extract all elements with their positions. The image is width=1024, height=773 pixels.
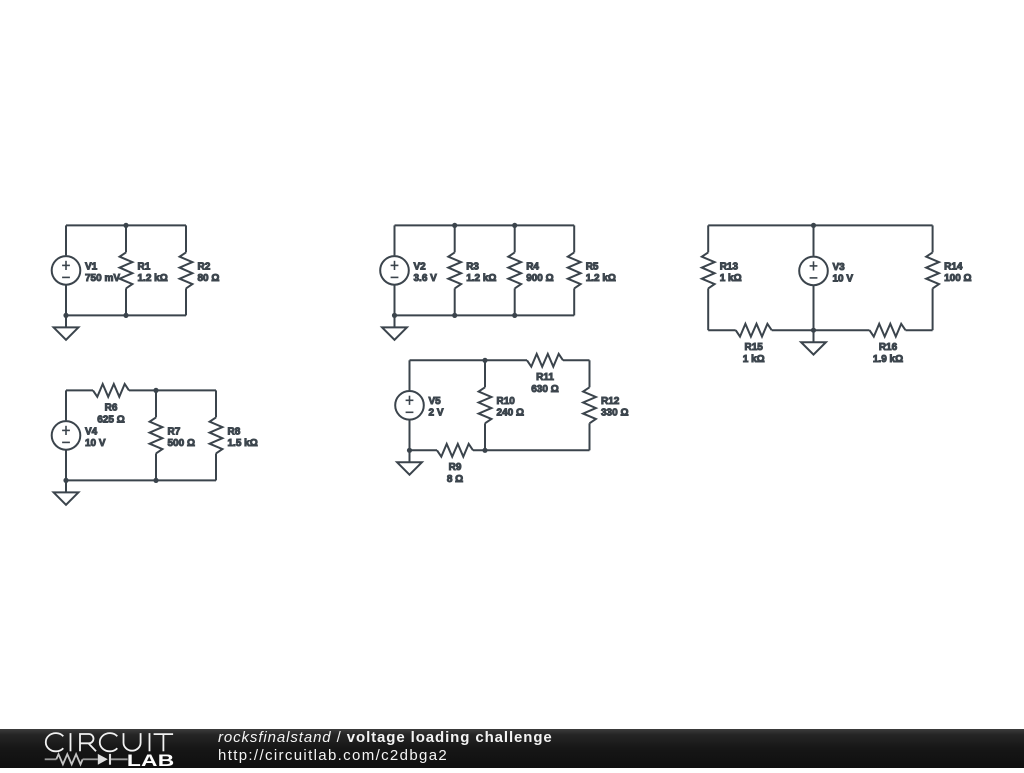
logo resistor and diode symbol — [45, 754, 128, 765]
svg-text:R10: R10 — [497, 396, 516, 407]
wire V2 leads — [394, 225, 396, 315]
svg-text:R8: R8 — [228, 426, 241, 437]
svg-text:240 Ω: 240 Ω — [497, 408, 524, 419]
wire top net circuit3 — [708, 224, 932, 226]
resistor R6 — [93, 384, 129, 425]
ground circuit4 — [54, 480, 79, 504]
resistor R1 — [120, 252, 168, 288]
resistor R8 — [210, 417, 258, 453]
svg-text:1.2 kΩ: 1.2 kΩ — [138, 273, 168, 284]
svg-text:R14: R14 — [944, 261, 963, 272]
resistor R2 — [180, 252, 220, 288]
ground circuit5 — [397, 450, 422, 474]
node junction bottom R4 c2 — [512, 313, 517, 318]
resistor R13 — [702, 252, 742, 288]
wire top net circuit2 — [395, 224, 575, 226]
svg-text:500 Ω: 500 Ω — [168, 438, 195, 449]
svg-text:100 Ω: 100 Ω — [944, 273, 971, 284]
wire bottom net circuit2 — [395, 314, 575, 316]
node junction bottom V2 c2 — [392, 313, 397, 318]
caption url — [218, 748, 448, 763]
wire R2 leads — [185, 225, 187, 315]
wire R5 leads — [573, 225, 575, 315]
resistor R14 — [926, 252, 971, 288]
svg-text:R16: R16 — [879, 342, 898, 353]
svg-text:V3: V3 — [833, 262, 846, 273]
wire bottom net circuit1 — [66, 314, 186, 316]
node junction top R1 c1 — [123, 223, 128, 228]
svg-text:10 V: 10 V — [85, 438, 106, 449]
svg-text:2 V: 2 V — [429, 408, 444, 419]
node junction bottom V4 c4 — [63, 478, 68, 483]
svg-text:750 mV: 750 mV — [85, 273, 120, 284]
svg-text:R2: R2 — [198, 261, 211, 272]
svg-text:630 Ω: 630 Ω — [531, 384, 558, 395]
svg-text:R6: R6 — [105, 402, 118, 413]
svg-text:625 Ω: 625 Ω — [97, 414, 124, 425]
resistor R12 — [583, 387, 628, 423]
wire V3 leads — [813, 225, 815, 330]
wire R4 leads — [514, 225, 516, 315]
resistor R4 — [508, 252, 553, 288]
logo wordmark CIRCUIT — [46, 733, 173, 751]
wire R8 leads — [215, 390, 217, 480]
svg-text:V5: V5 — [429, 396, 442, 407]
svg-text:1.2 kΩ: 1.2 kΩ — [586, 273, 616, 284]
node junction top R10 c5 — [482, 358, 487, 363]
svg-text:10 V: 10 V — [833, 273, 854, 284]
wire R12 leads — [589, 360, 591, 450]
bottom info bar — [0, 729, 1024, 768]
wire R7 leads — [155, 390, 157, 480]
svg-text:R11: R11 — [536, 372, 554, 383]
wire top net circuit4 — [66, 389, 216, 391]
wire R10 leads — [484, 360, 486, 450]
svg-text:R9: R9 — [449, 462, 462, 473]
wire R1 leads — [125, 225, 127, 315]
node junction top R3 c2 — [452, 223, 457, 228]
voltage source V4 — [52, 421, 106, 450]
CircuitLab logo — [0, 729, 230, 768]
voltage source V1 — [52, 256, 121, 285]
svg-text:8 Ω: 8 Ω — [447, 474, 463, 485]
svg-text:V1: V1 — [85, 261, 98, 272]
node junction bottom V3 c3 — [811, 328, 816, 333]
svg-text:900 Ω: 900 Ω — [526, 273, 553, 284]
wire bottom net circuit5 — [410, 449, 590, 451]
svg-text:R5: R5 — [586, 261, 599, 272]
node junction top R7 c4 — [153, 388, 158, 393]
wire V1 leads — [65, 225, 67, 315]
svg-text:1.9 kΩ: 1.9 kΩ — [873, 354, 903, 365]
svg-text:LAB: LAB — [127, 752, 175, 768]
svg-text:R15: R15 — [745, 342, 764, 353]
node junction bottom R7 c4 — [153, 478, 158, 483]
svg-text:R1: R1 — [138, 261, 151, 272]
svg-text:R13: R13 — [720, 261, 739, 272]
node junction top V3 c3 — [811, 223, 816, 228]
svg-text:R7: R7 — [168, 426, 181, 437]
resistor R16 — [870, 324, 906, 365]
wire top net circuit5 — [410, 359, 590, 361]
wire V5 leads — [409, 360, 411, 450]
svg-text:1 kΩ: 1 kΩ — [720, 273, 742, 284]
resistor R5 — [568, 252, 616, 288]
svg-text:R4: R4 — [526, 261, 539, 272]
node junction bottom R3 c2 — [452, 313, 457, 318]
resistor R11 — [527, 354, 563, 395]
voltage source V2 — [380, 256, 437, 285]
resistor R7 — [150, 417, 195, 453]
ground circuit1 — [54, 315, 79, 339]
node junction bottom R1 c1 — [123, 313, 128, 318]
svg-text:330 Ω: 330 Ω — [601, 408, 628, 419]
svg-text:1.5 kΩ: 1.5 kΩ — [228, 438, 258, 449]
svg-text:3.6 V: 3.6 V — [414, 273, 438, 284]
resistor R10 — [479, 387, 524, 423]
wire R3 leads — [454, 225, 456, 315]
resistor R9 — [437, 444, 473, 485]
node junction bottom V1 c1 — [63, 313, 68, 318]
node junction top R4 c2 — [512, 223, 517, 228]
svg-text:V2: V2 — [414, 261, 427, 272]
svg-text:80 Ω: 80 Ω — [198, 273, 220, 284]
resistor R3 — [448, 252, 496, 288]
wire V4 leads — [65, 390, 67, 480]
ground circuit3 — [801, 330, 826, 354]
wire R14 leads — [932, 225, 934, 330]
svg-text:R12: R12 — [601, 396, 620, 407]
wire bottom net circuit3 — [708, 329, 932, 331]
node junction bottom R10 c5 — [482, 448, 487, 453]
svg-text:R3: R3 — [466, 261, 479, 272]
caption text — [218, 730, 553, 745]
svg-text:V4: V4 — [85, 426, 98, 437]
logo LAB text — [127, 752, 175, 770]
node junction bottom V5 c5 — [407, 448, 412, 453]
svg-text:1.2 kΩ: 1.2 kΩ — [466, 273, 496, 284]
voltage source V3 — [799, 257, 853, 286]
wire bottom net circuit4 — [66, 479, 216, 481]
resistor R15 — [736, 324, 772, 365]
voltage source V5 — [395, 391, 444, 420]
wire top net circuit1 — [66, 224, 186, 226]
ground circuit2 — [382, 315, 407, 339]
wire R13 leads — [707, 225, 709, 330]
svg-text:1 kΩ: 1 kΩ — [743, 354, 765, 365]
